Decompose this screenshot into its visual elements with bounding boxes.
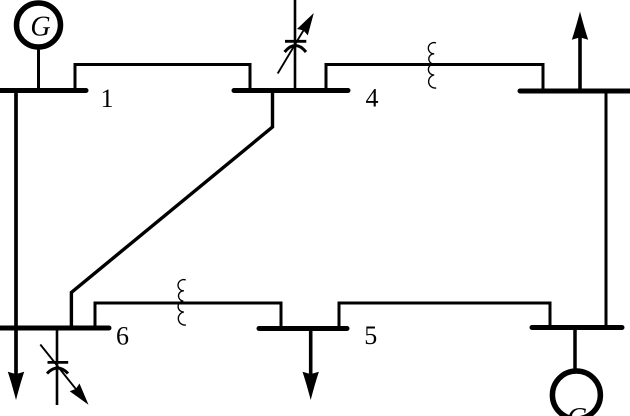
variable capacitor C4 adjustment arrow shaft bbox=[278, 30, 304, 73]
wire top-right bus down to bottom-right bus bbox=[605, 91, 608, 328]
variable capacitor stem at bus 6 bbox=[56, 330, 59, 405]
variable capacitor C6 flat plate bbox=[48, 361, 69, 364]
svg-text:G: G bbox=[567, 403, 587, 416]
svg-text:G: G bbox=[30, 12, 50, 43]
load arrow line from bus1 through bus6: shaft bbox=[14, 92, 18, 378]
load arrow at bus6 left: head bbox=[8, 372, 24, 400]
svg-text:1: 1 bbox=[101, 84, 114, 113]
bus bottom-right bar bbox=[532, 325, 622, 330]
variable capacitor C4 curved plate bbox=[285, 46, 306, 53]
svg-text:4: 4 bbox=[366, 84, 379, 113]
variable capacitor C4 flat plate bbox=[285, 40, 306, 43]
bus 4 bar bbox=[234, 88, 348, 93]
wire G1 stem to bus 1 bbox=[37, 46, 40, 92]
load arrow at bus 5: shaft bbox=[309, 330, 313, 378]
svg-text:5: 5 bbox=[364, 321, 377, 350]
bus 5 bar bbox=[259, 326, 347, 331]
variable capacitor C6 adjustment arrowhead bbox=[70, 384, 89, 405]
diagonal wire bus4 to bus6 bbox=[71, 92, 272, 328]
generation arrow up at top-right bus: head bbox=[572, 12, 588, 40]
bus top-right bar bbox=[520, 89, 630, 94]
wire bus5 to bottom-right bus bbox=[339, 303, 550, 330]
variable capacitor C6 curved plate bbox=[47, 368, 68, 374]
bus 6 bar bbox=[0, 326, 109, 331]
generator G1 circle (top left) bbox=[17, 3, 61, 47]
bus 1 bar bbox=[0, 88, 86, 93]
load arrow at bus 5: head bbox=[303, 372, 319, 400]
variable capacitor C4 adjustment arrowhead bbox=[297, 13, 314, 35]
generation arrow up at top-right bus: shaft bbox=[578, 35, 582, 89]
generator G2 circle (bottom right, cut off) bbox=[552, 371, 600, 416]
wire bus1 to bus4 (line 1-4) bbox=[75, 65, 250, 93]
transformer coil T1 on line 4-TR bbox=[428, 43, 436, 88]
wire bottom-right bus to generator G2 bbox=[573, 329, 577, 370]
transformer coil T2 on line 6-5 bbox=[178, 280, 186, 325]
svg-text:6: 6 bbox=[116, 322, 129, 351]
wire bus4 to top-right bus (line with transformer) bbox=[326, 65, 543, 93]
variable capacitor C6 adjustment arrow shaft bbox=[40, 345, 76, 390]
wire bus6 to bus5 (line with transformer) bbox=[95, 303, 281, 330]
variable capacitor stem at bus 4 bbox=[294, 0, 297, 90]
